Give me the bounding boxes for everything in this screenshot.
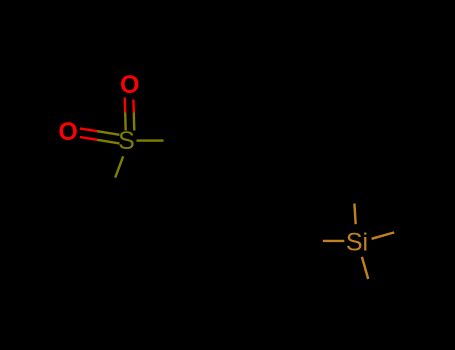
bond S1-C (right, visible olive half) xyxy=(137,139,164,141)
bond Si1-C (up methyl, visible orange half) xyxy=(354,204,355,225)
bond Si1-C (upper-right methyl, visible orange half) xyxy=(372,232,395,238)
double bond S=O1 line A (olive half, S side) xyxy=(124,113,127,131)
double bond S=O2 lower line (olive half, S side) xyxy=(97,140,119,144)
double bond S=O1 line B (red half, O side) xyxy=(132,100,135,113)
double bond S=O1 line A (red half, O side) xyxy=(123,98,126,113)
double bond S=O2 lower line (red half, O side) xyxy=(80,137,97,140)
bond Si1-C (down methyl, visible orange half) xyxy=(362,257,368,279)
svg-text:Si: Si xyxy=(346,228,368,256)
svg-text:O: O xyxy=(120,71,139,99)
bond S1-C (down-left, visible olive half) xyxy=(115,156,123,177)
svg-text:O: O xyxy=(58,118,77,146)
svg-text:S: S xyxy=(118,127,135,155)
double bond S=O2 upper line (red half, O side) xyxy=(80,128,97,131)
double bond S=O2 upper line (olive half, S side) xyxy=(97,131,119,135)
double bond S=O1 line B (olive half, S side) xyxy=(133,113,136,131)
bond Si1-C (left, visible orange half) xyxy=(323,240,345,242)
